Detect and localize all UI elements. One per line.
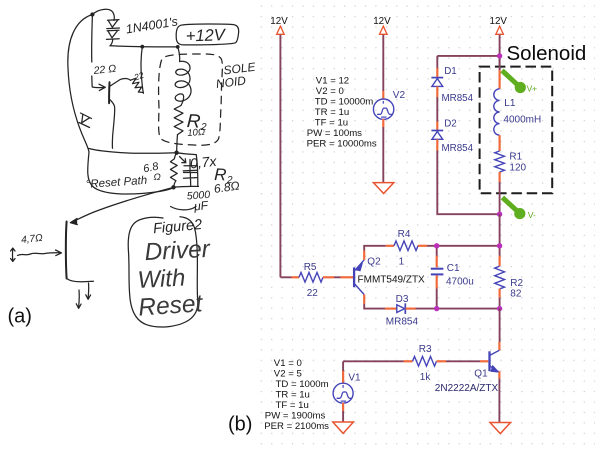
transistor Q1	[480, 342, 499, 379]
sketch figure loop outline	[128, 217, 198, 327]
resistor R4	[394, 241, 418, 251]
wire rail C to Q1 collector	[499, 309, 501, 342]
sketch swoop to upper node	[89, 149, 177, 154]
svg-text:+12V: +12V	[186, 26, 228, 45]
svg-text:V2 = 0: V2 = 0	[316, 86, 344, 97]
svg-text:22: 22	[307, 288, 319, 299]
sketch wire to base arrow	[92, 76, 104, 88]
power rail +12V arrow 3	[496, 26, 504, 34]
svg-text:L1: L1	[504, 98, 516, 109]
wire R5 to Q2	[334, 276, 341, 278]
wire V2 to ground	[382, 127, 384, 182]
inductor to R1 lead	[499, 135, 501, 151]
ground under V2	[373, 183, 393, 194]
svg-text:PW = 100ms: PW = 100ms	[307, 128, 362, 139]
svg-text:TR = 1u: TR = 1u	[276, 390, 310, 401]
svg-text:Q2: Q2	[367, 257, 381, 268]
sketch +12V box	[176, 24, 238, 45]
sketch diode 1N4001 (upper)	[107, 20, 120, 29]
wire Q2 top corner to R4	[364, 246, 386, 251]
V2 parameter text	[307, 75, 377, 149]
sketch cap plusminus	[184, 160, 198, 173]
sketch resistor 6.8 zigzag	[170, 153, 177, 188]
resistor R2	[495, 266, 505, 289]
inductor L1 lead top	[499, 70, 501, 89]
transistor Q2	[341, 251, 365, 304]
power rail +12V arrow 1	[277, 26, 285, 34]
svg-text:TF = 1u: TF = 1u	[276, 400, 309, 411]
wire R1 to bottom junction	[499, 182, 501, 214]
svg-text:R1: R1	[509, 152, 522, 163]
diode D3	[385, 303, 416, 314]
sketch resistor R1 zigzag	[174, 106, 183, 135]
sketch diode on left arc	[79, 113, 92, 128]
sketch down arrow 1	[86, 283, 91, 299]
sketch node top junction	[90, 12, 94, 16]
wire Q1 emitter to ground	[498, 379, 500, 423]
resistor R5	[299, 273, 323, 283]
junction node C1 bottom	[434, 306, 439, 311]
svg-text:1: 1	[399, 257, 405, 268]
svg-text:(b): (b)	[228, 414, 252, 436]
grid background (decorative)	[256, 0, 595, 449]
wire top-right horizontal	[437, 55, 499, 57]
svg-text:22 Ω: 22 Ω	[92, 63, 117, 77]
svg-text:D1: D1	[444, 66, 457, 77]
sketch swoop to bottom-left arrow	[72, 187, 174, 222]
diode D1	[431, 68, 443, 97]
svg-text:PER = 2100ms: PER = 2100ms	[264, 421, 329, 432]
svg-text:V+: V+	[527, 84, 538, 94]
voltage source V2	[373, 91, 393, 127]
sketch arrowhead at bar	[70, 219, 77, 225]
ground under Q1	[490, 423, 511, 434]
svg-text:Ω: Ω	[154, 172, 161, 183]
svg-text:MR854: MR854	[442, 143, 474, 154]
svg-text:PER = 10000ms: PER = 10000ms	[307, 138, 377, 149]
svg-text:R4: R4	[398, 229, 411, 240]
wire between D1 and D2	[436, 97, 438, 122]
svg-text:With: With	[137, 265, 186, 294]
sketch wire diodes to horizontal	[110, 39, 113, 45]
sketch inner vertical wire	[91, 15, 94, 63]
R3 lead right	[437, 360, 447, 362]
V1 parameter text	[264, 358, 329, 432]
svg-text:TD = 10000m: TD = 10000m	[315, 96, 373, 107]
sketch left big arc	[68, 15, 93, 153]
svg-text:V1 = 0: V1 = 0	[274, 358, 302, 369]
resistor R3 lead left	[404, 360, 413, 362]
junction node R2 bottom	[497, 306, 502, 311]
sketch dashed solenoid outline	[159, 54, 223, 145]
svg-text:1k: 1k	[420, 372, 432, 383]
sketch cap top plate	[183, 169, 197, 172]
svg-text:(a): (a)	[8, 306, 32, 328]
svg-text:4000mH: 4000mH	[503, 114, 541, 125]
probe V-	[502, 198, 536, 221]
sketch node dot lower	[171, 185, 175, 189]
svg-text:TR = 1u: TR = 1u	[315, 107, 349, 118]
svg-text:2N2222A/ZTX: 2N2222A/ZTX	[435, 383, 499, 394]
wire rail C through box top	[499, 56, 501, 70]
junction node C1 top	[434, 243, 439, 248]
svg-text:R3: R3	[419, 344, 432, 355]
svg-text:V2: V2	[393, 90, 406, 101]
sketch emitter line	[109, 99, 115, 148]
wire D3 to C1	[416, 308, 437, 310]
junction node bottom-right of box	[497, 212, 502, 217]
probe V+	[502, 71, 537, 94]
sketch junction dot at box	[176, 45, 180, 49]
svg-text:Q1: Q1	[474, 369, 488, 380]
ground under V1	[333, 422, 354, 433]
voltage source V1	[333, 361, 353, 411]
resistor R1	[495, 151, 505, 172]
sketch coil loops	[175, 61, 191, 105]
wire base line V1 corner to R3	[343, 360, 403, 362]
sketch squiggle arrow to bar	[18, 250, 62, 256]
svg-text:12V: 12V	[490, 16, 508, 27]
R5 lead right	[323, 276, 334, 278]
svg-text:12V: 12V	[270, 16, 288, 27]
svg-text:10Ω: 10Ω	[187, 127, 206, 139]
R1 bottom lead	[499, 172, 501, 182]
svg-text:4,7Ω: 4,7Ω	[21, 233, 44, 246]
capacitor C1	[431, 246, 444, 309]
svg-text:D3: D3	[396, 294, 409, 305]
sketch base arrowhead	[99, 84, 105, 90]
resistor R4 lead left	[386, 245, 394, 247]
sketch horizontal wire to +12V box	[110, 46, 178, 47]
wire diode branch bottom	[437, 151, 499, 215]
svg-text:Reset: Reset	[137, 290, 204, 321]
sketch cap arrow	[180, 157, 186, 163]
svg-text:Solenoid: Solenoid	[507, 42, 587, 65]
wire rail A horizontal to R5	[280, 276, 291, 278]
wire R3 to Q1 base	[446, 360, 480, 362]
svg-text:V1 = 12: V1 = 12	[316, 75, 349, 86]
sketch node dot upper	[174, 151, 178, 155]
svg-text:R2: R2	[510, 278, 523, 289]
sketch transistor bar	[108, 82, 110, 103]
svg-text:R5: R5	[304, 262, 317, 273]
solenoid dashed box	[480, 67, 553, 194]
svg-text:μF: μF	[192, 198, 209, 214]
svg-text:TF = 1u: TF = 1u	[315, 117, 348, 128]
wire rail B vertical	[382, 35, 384, 91]
sketch flourish under uF	[171, 207, 197, 210]
svg-text:82: 82	[510, 289, 522, 300]
resistor R2 lead top	[499, 246, 501, 256]
sketch cap bottom tee	[184, 173, 197, 186]
sketch down arrow 2	[76, 290, 81, 308]
junction node top-right	[497, 53, 502, 58]
sketch small updown arrow	[11, 248, 15, 262]
svg-text:V2 = 5: V2 = 5	[274, 369, 302, 380]
sketch junction dot mid	[140, 45, 144, 49]
sketch wire R1 to node	[176, 135, 179, 153]
svg-text:D2: D2	[444, 119, 457, 130]
svg-text:MR854: MR854	[386, 317, 419, 328]
sketch cap branch box	[177, 153, 198, 186]
wire R4 to rail C	[427, 245, 500, 247]
junction node R2 top	[497, 243, 502, 248]
sketch below-bar hook	[67, 279, 94, 282]
sketch resistor 22 squiggle	[131, 78, 144, 92]
R2 lead bottom	[499, 289, 501, 298]
resistor R3	[413, 357, 437, 367]
svg-text:120: 120	[509, 163, 526, 174]
svg-text:V1: V1	[348, 373, 361, 384]
svg-text:FMMT549/ZTX: FMMT549/ZTX	[358, 274, 426, 285]
sketch wire from box to coil	[178, 47, 180, 62]
svg-text:TD = 1000m: TD = 1000m	[276, 379, 329, 390]
svg-text:PW = 1900ms: PW = 1900ms	[265, 411, 326, 422]
wire diode branch top	[436, 56, 438, 68]
sketch reset path loop	[88, 152, 174, 194]
svg-text:MR854: MR854	[442, 93, 474, 104]
wire rail C top	[499, 35, 501, 67]
sketch wire top loop to diodes	[92, 9, 114, 20]
sketch bottom node line	[174, 185, 199, 188]
wire C1 bottom to rail C	[437, 308, 500, 310]
svg-text:C1: C1	[447, 263, 460, 274]
R4 lead right	[418, 245, 427, 247]
diode D2	[431, 122, 443, 151]
sketch collector line	[109, 79, 130, 87]
sketch right vertical wire	[141, 47, 143, 94]
sketch vertical bar	[65, 222, 68, 279]
wire Q2 bottom corner to D3	[364, 304, 385, 309]
wire rail A vertical	[279, 35, 281, 277]
sketch diode 1N4001 (lower)	[107, 30, 120, 39]
resistor R5 lead left	[292, 276, 300, 278]
svg-text:12V: 12V	[373, 16, 391, 27]
wire V1 to ground	[342, 411, 344, 422]
svg-text:Driver: Driver	[144, 236, 211, 266]
inductor L1	[494, 89, 500, 135]
wire rail C between junctions	[499, 214, 501, 246]
power rail +12V arrow 2	[380, 26, 388, 34]
svg-text:V-: V-	[528, 210, 536, 220]
svg-text:4700u: 4700u	[446, 276, 474, 287]
